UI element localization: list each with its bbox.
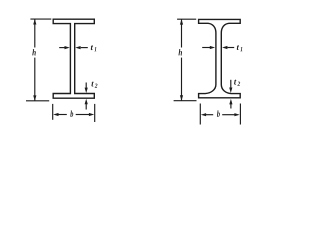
label t2 (left): subscript 2 xyxy=(95,84,98,88)
label t2 (left): letter t xyxy=(91,82,93,87)
label b (right) xyxy=(217,110,220,116)
left figure: b left arrowhead xyxy=(53,113,58,116)
left figure: h top extension line xyxy=(30,18,51,20)
left figure: b dimension line left segment xyxy=(57,114,67,116)
label t1 (right): letter t xyxy=(237,45,239,50)
right figure: h up arrowhead xyxy=(180,19,183,25)
label t2 (right): letter t xyxy=(234,80,236,85)
right figure: b left extension line xyxy=(199,104,201,125)
label t1 (right): subscript 1 xyxy=(240,47,242,51)
right figure: h top extension line xyxy=(177,18,196,20)
right figure: b dimension line left segment xyxy=(205,114,214,116)
right figure: b left arrowhead xyxy=(201,113,206,116)
left figure: t1 right-pointing arrow xyxy=(59,47,66,49)
left figure: h bottom extension line xyxy=(26,100,49,102)
left figure: b right arrowhead xyxy=(89,113,94,116)
right figure: t2 up arrow below bottom flange xyxy=(230,103,232,109)
label h (left) xyxy=(32,49,36,55)
left figure: h up arrowhead xyxy=(33,19,36,25)
right figure: h dimension line lower segment xyxy=(181,58,183,101)
right figure: b right extension line xyxy=(239,104,241,125)
left figure: b left extension line xyxy=(52,104,54,120)
left figure: b dimension line right segment xyxy=(76,114,91,116)
left figure: h dimension line upper segment xyxy=(34,19,36,47)
label h (right) xyxy=(179,49,183,55)
left figure: h down arrowhead xyxy=(33,95,36,101)
right figure: h bottom extension line xyxy=(174,100,197,102)
label b (left) xyxy=(70,110,73,116)
left figure: t2 down arrow above bottom flange xyxy=(85,83,87,90)
left figure: h dimension line lower segment xyxy=(34,58,36,101)
label t2 (right): subscript 2 xyxy=(237,82,240,86)
right figure: t2 down arrow above bottom flange xyxy=(230,80,232,89)
right figure: b dimension line right segment xyxy=(222,114,236,116)
right figure: t1 right-pointing arrow xyxy=(202,47,211,49)
right figure: b right arrowhead xyxy=(234,113,239,116)
right figure: h dimension line upper segment xyxy=(181,19,183,47)
right figure: h down arrowhead xyxy=(180,95,183,101)
label t1 (left): subscript 1 xyxy=(94,47,96,51)
left figure: t1 left-pointing arrow xyxy=(81,47,88,49)
left figure: t2 up arrow below bottom flange xyxy=(85,103,87,110)
label t1 (left): letter t xyxy=(91,45,93,50)
left figure: b right extension line xyxy=(94,104,96,122)
right I-beam outline (tapered-flange S shape) xyxy=(199,19,241,97)
right figure: t1 left-pointing arrow xyxy=(228,47,235,49)
left I-beam outline (parallel-flange W shape) xyxy=(53,19,94,98)
